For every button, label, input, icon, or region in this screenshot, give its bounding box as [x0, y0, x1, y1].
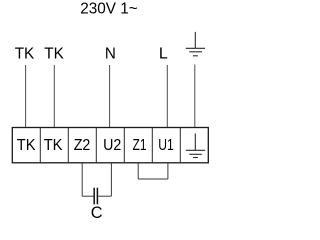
svg-text:TK: TK: [44, 137, 63, 154]
svg-text:Z2: Z2: [74, 137, 91, 154]
svg-text:TK: TK: [15, 45, 35, 62]
svg-text:TK: TK: [44, 45, 64, 62]
svg-text:U2: U2: [103, 137, 121, 154]
svg-text:N: N: [105, 45, 116, 62]
svg-text:Z1: Z1: [133, 137, 147, 154]
svg-text:C: C: [91, 204, 103, 220]
svg-text:U1: U1: [158, 137, 174, 154]
svg-text:L: L: [159, 45, 168, 62]
svg-text:TK: TK: [17, 137, 36, 154]
svg-text:230V 1~: 230V 1~: [80, 1, 138, 18]
